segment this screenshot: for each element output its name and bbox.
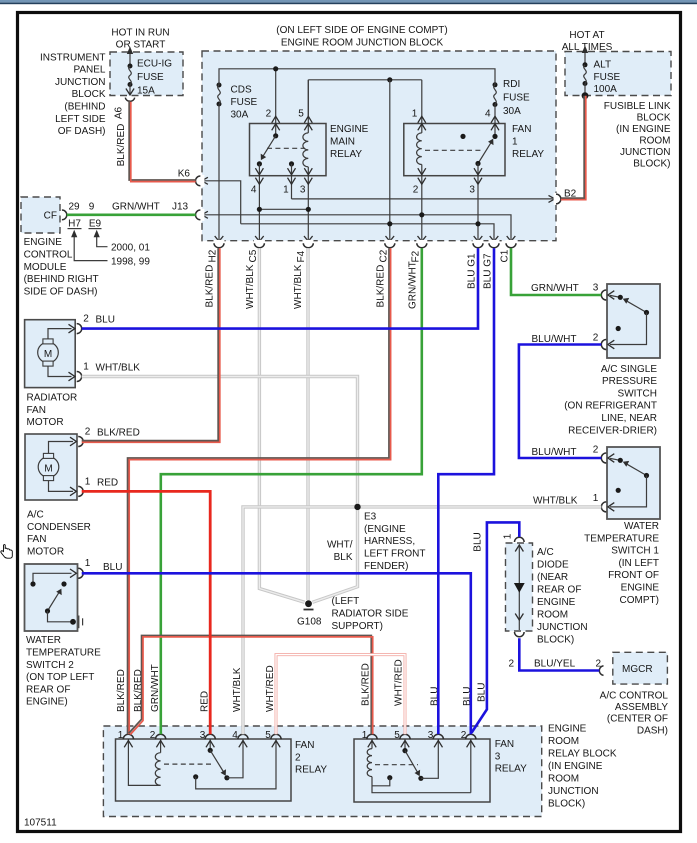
svg-text:RADIATOR: RADIATOR — [27, 393, 78, 404]
svg-text:BLK/RED: BLK/RED — [376, 265, 387, 308]
svg-text:WHT/BLK: WHT/BLK — [245, 264, 256, 309]
svg-text:M: M — [44, 463, 52, 474]
FAN1 contact dot — [475, 161, 480, 166]
wire jumper pins4-3 — [259, 208, 308, 210]
engine room junction block box — [202, 51, 556, 241]
svg-text:RECEIVER-DRIER): RECEIVER-DRIER) — [568, 425, 657, 436]
svg-text:ENGINE: ENGINE — [621, 583, 660, 594]
svg-text:BLU/YEL: BLU/YEL — [534, 659, 576, 670]
svg-text:WATER: WATER — [26, 635, 61, 646]
svg-text:107511: 107511 — [24, 818, 57, 829]
WTS1 dot B — [644, 473, 649, 478]
FAN2 pin 4 — [227, 739, 243, 778]
svg-text:BLOCK): BLOCK) — [548, 799, 585, 810]
svg-text:1: 1 — [85, 476, 91, 487]
svg-text:(BEHIND RIGHT: (BEHIND RIGHT — [24, 274, 99, 285]
wire K6 row — [204, 181, 241, 224]
svg-text:FAN: FAN — [495, 739, 514, 750]
a/c condenser fan motor box — [25, 434, 77, 500]
svg-text:E9: E9 — [89, 219, 102, 230]
svg-text:J13: J13 — [172, 202, 189, 213]
svg-text:4: 4 — [485, 109, 491, 120]
fusible link block box — [565, 52, 671, 96]
svg-text:G108: G108 — [297, 616, 322, 627]
svg-text:COMPT): COMPT) — [620, 595, 659, 606]
a/c diode box — [506, 543, 533, 631]
svg-text:ENGINE): ENGINE) — [26, 697, 68, 708]
svg-text:2: 2 — [83, 314, 89, 325]
svg-text:5: 5 — [265, 730, 271, 741]
svg-text:GRN/WHT: GRN/WHT — [112, 202, 160, 213]
svg-text:HARNESS,: HARNESS, — [364, 536, 415, 547]
svg-text:SIDE OF DASH): SIDE OF DASH) — [24, 287, 98, 298]
diode pin 1 connector — [515, 537, 525, 542]
connector A6 — [125, 98, 134, 102]
svg-text:BLK/RED: BLK/RED — [361, 663, 372, 706]
wire BLK/RED C2 to FAN2 pin1 — [128, 248, 391, 734]
WTS2 internal wire — [33, 573, 72, 581]
wire BLK/RED A6 to K6 — [129, 100, 196, 181]
engine control module CF box — [21, 197, 60, 233]
FAN3 mechanical link — [375, 764, 418, 766]
svg-text:BLU: BLU — [96, 315, 115, 326]
svg-text:JUNCTION: JUNCTION — [537, 622, 588, 633]
svg-text:C5: C5 — [248, 249, 259, 262]
svg-text:29: 29 — [68, 202, 80, 213]
svg-text:FUSIBLE LINK: FUSIBLE LINK — [604, 101, 671, 112]
water temperature switch 2 box — [25, 564, 78, 631]
svg-text:WHT/BLK: WHT/BLK — [96, 362, 141, 373]
svg-text:FRONT OF: FRONT OF — [608, 570, 659, 581]
radiator fan motor symbol — [38, 342, 59, 363]
fan 3 relay box — [354, 739, 490, 802]
svg-text:GRN/WHT: GRN/WHT — [408, 261, 419, 309]
node second bus to C2 — [387, 77, 392, 82]
svg-text:2: 2 — [266, 109, 272, 120]
svg-text:WHT/BLK: WHT/BLK — [533, 495, 578, 506]
ALT fuse 100A — [584, 50, 586, 65]
svg-text:(IN LEFT: (IN LEFT — [618, 558, 659, 569]
fan 1 relay box — [404, 124, 505, 176]
svg-text:1: 1 — [362, 730, 368, 741]
svg-text:(BEHIND: (BEHIND — [64, 102, 105, 113]
svg-text:ENGINE: ENGINE — [548, 724, 587, 735]
svg-text:DIODE: DIODE — [537, 559, 569, 570]
svg-text:WHT/BLK: WHT/BLK — [293, 264, 304, 309]
svg-text:DASH): DASH) — [637, 725, 668, 736]
svg-text:(IN ENGINE: (IN ENGINE — [616, 124, 671, 135]
node row2 G1 — [475, 221, 480, 226]
EMR switch arm — [263, 136, 275, 156]
svg-text:BLOCK): BLOCK) — [633, 159, 670, 170]
wire WHT/BLK E3 to WTS1 pin1 and FAN2 pin4 — [243, 507, 601, 734]
svg-text:ECU-IG: ECU-IG — [137, 59, 172, 70]
svg-text:WHT/: WHT/ — [327, 540, 353, 551]
diode internal — [518, 545, 520, 631]
second bus wire — [308, 79, 422, 81]
svg-text:SWITCH 2: SWITCH 2 — [26, 660, 74, 671]
svg-text:REAR OF: REAR OF — [537, 584, 581, 595]
svg-text:MOTOR: MOTOR — [27, 417, 64, 428]
svg-text:BLOCK: BLOCK — [72, 89, 106, 100]
svg-text:JUNCTION: JUNCTION — [548, 786, 599, 797]
FAN3 left dot — [387, 775, 392, 780]
svg-text:TEMPERATURE: TEMPERATURE — [584, 533, 659, 544]
wire WHT/BLK C5 to G108 — [259, 248, 304, 602]
junction dot at fusible link block bottom — [582, 92, 589, 99]
svg-text:LINE, NEAR: LINE, NEAR — [601, 413, 657, 424]
svg-text:4: 4 — [251, 185, 257, 196]
svg-text:A/C SINGLE: A/C SINGLE — [601, 364, 657, 375]
svg-text:(ENGINE: (ENGINE — [364, 524, 406, 535]
svg-text:BLU G7: BLU G7 — [483, 253, 494, 289]
pressure switch dot A — [618, 295, 623, 300]
condenser motor pin 1 — [70, 487, 76, 496]
svg-text:WHT/RED: WHT/RED — [265, 665, 276, 712]
FAN2 coil pin 2 — [160, 739, 162, 753]
svg-text:RED: RED — [97, 477, 118, 488]
svg-text:RELAY: RELAY — [295, 765, 327, 776]
svg-text:MGCR: MGCR — [622, 664, 653, 675]
wire WHT/RED FAN2 pin5 to FAN3 pin5 — [276, 655, 405, 735]
svg-text:BLOCK): BLOCK) — [537, 634, 574, 645]
EMR mechanical link — [267, 147, 305, 149]
wire BLK/RED B2 to ALT fuse — [561, 96, 586, 200]
svg-text:MOTOR: MOTOR — [27, 547, 64, 558]
svg-text:RELAY: RELAY — [495, 764, 527, 775]
svg-text:(IN ENGINE: (IN ENGINE — [548, 761, 603, 772]
svg-text:CONDENSER: CONDENSER — [27, 522, 91, 533]
WTS1 pin 1 path — [610, 476, 647, 507]
top bus wire — [219, 69, 495, 85]
wire BLU G7 to FAN3 pin3 — [438, 248, 494, 734]
FAN1 floating contact dot — [460, 134, 465, 139]
svg-text:(CENTER OF: (CENTER OF — [607, 714, 668, 725]
svg-text:ROOM: ROOM — [537, 609, 568, 620]
svg-text:A/C CONTROL: A/C CONTROL — [600, 690, 669, 701]
svg-text:ROOM: ROOM — [639, 136, 670, 147]
svg-text:2: 2 — [150, 730, 156, 741]
wire RED condenser fan pin1 to FAN2 pin3 — [82, 491, 211, 734]
svg-text:A6: A6 — [114, 106, 125, 119]
wire C2 shaft — [389, 80, 391, 241]
wire BLK/RED FAN2 pin2 to FAN3 pin1 — [129, 636, 373, 735]
svg-text:ENGINE: ENGINE — [330, 124, 369, 135]
node top bus to EMR pin2 — [273, 66, 278, 71]
wire B2 row — [292, 198, 553, 200]
svg-text:4: 4 — [232, 730, 238, 741]
svg-text:BLK/RED: BLK/RED — [97, 427, 140, 438]
svg-text:K6: K6 — [178, 168, 191, 179]
svg-text:SWITCH: SWITCH — [618, 388, 657, 399]
ground G108 — [305, 600, 312, 607]
svg-text:3: 3 — [300, 185, 306, 196]
svg-text:ENGINE: ENGINE — [24, 237, 63, 248]
connector B2 — [554, 193, 559, 205]
svg-text:3: 3 — [428, 730, 434, 741]
wire WHT/BLK radiator fan pin1 to E3 to G108 — [82, 377, 358, 603]
svg-text:1: 1 — [593, 493, 599, 504]
svg-text:9: 9 — [89, 202, 95, 213]
water temperature switch 1 box — [607, 447, 660, 519]
svg-text:15A: 15A — [137, 86, 155, 97]
a/c single pressure switch box — [607, 284, 660, 358]
svg-text:BLU/WHT: BLU/WHT — [532, 334, 577, 345]
svg-text:BLU G1: BLU G1 — [467, 253, 478, 289]
svg-text:BLK/RED: BLK/RED — [205, 265, 216, 308]
svg-text:FUSE: FUSE — [231, 97, 258, 108]
pressure switch arm — [627, 301, 646, 312]
svg-text:ALT: ALT — [594, 60, 612, 71]
svg-text:BLU: BLU — [103, 562, 122, 573]
svg-text:1: 1 — [83, 361, 89, 372]
svg-text:100A: 100A — [594, 84, 618, 95]
MGCR box — [613, 652, 668, 684]
svg-text:1: 1 — [503, 533, 514, 539]
svg-text:OR START: OR START — [116, 40, 166, 51]
svg-text:WATER: WATER — [624, 521, 659, 532]
svg-text:2: 2 — [85, 426, 91, 437]
svg-text:FAN: FAN — [27, 405, 46, 416]
svg-text:INSTRUMENT: INSTRUMENT — [40, 52, 106, 63]
svg-text:2: 2 — [295, 752, 301, 763]
svg-text:JUNCTION: JUNCTION — [620, 147, 671, 158]
FAN1 switch arm — [478, 143, 491, 164]
svg-text:3: 3 — [469, 185, 475, 196]
svg-text:RADIATOR SIDE: RADIATOR SIDE — [332, 609, 409, 620]
svg-text:BLU: BLU — [473, 532, 484, 551]
WTS2 pin 1 — [70, 569, 76, 578]
svg-text:FAN: FAN — [295, 740, 314, 751]
top window strip — [0, 0, 697, 3]
radiator motor pin 2 — [69, 324, 75, 333]
svg-text:3: 3 — [593, 283, 599, 294]
svg-text:2: 2 — [413, 185, 419, 196]
node J13 FAN1 pin2 — [419, 212, 424, 217]
svg-text:PANEL: PANEL — [73, 65, 105, 76]
svg-text:MAIN: MAIN — [330, 137, 355, 148]
svg-text:5: 5 — [394, 730, 400, 741]
svg-text:OF DASH): OF DASH) — [58, 126, 106, 137]
WTS2 arm — [48, 593, 59, 611]
wire H2 shaft — [218, 104, 220, 241]
svg-text:LEFT FRONT: LEFT FRONT — [364, 549, 425, 560]
wire GRN/WHT C1 to pressure switch pin3 — [511, 248, 601, 295]
FAN2 pin 3 switch — [209, 739, 211, 750]
svg-text:LEFT SIDE: LEFT SIDE — [55, 114, 106, 125]
svg-text:FUSE: FUSE — [503, 93, 530, 104]
WTS1 arm — [627, 464, 646, 475]
WTS1 dot C — [616, 488, 621, 493]
engine room relay block box — [103, 726, 541, 817]
svg-text:A/C: A/C — [537, 547, 554, 558]
radiator fan motor box — [25, 320, 76, 388]
FAN1 mechanical link — [425, 149, 481, 151]
node row2 C2 — [387, 221, 392, 226]
year note arrows — [74, 235, 107, 261]
wire GRN/WHT F2 to FAN2 pin2 — [161, 248, 422, 734]
connector arcs on relay block edge — [123, 734, 476, 739]
pressure switch dot C — [616, 326, 621, 331]
svg-text:WHT/RED: WHT/RED — [394, 659, 405, 706]
svg-text:BLU/WHT: BLU/WHT — [532, 447, 577, 458]
svg-text:BLK/RED: BLK/RED — [116, 669, 127, 712]
svg-text:ROOM: ROOM — [548, 774, 579, 785]
svg-text:3: 3 — [200, 730, 206, 741]
svg-text:5: 5 — [298, 109, 304, 120]
wire BLU/WHT pressure switch pin2 to WTS1 pin2 — [519, 345, 601, 459]
svg-text:(ON REFRIGERANT: (ON REFRIGERANT — [564, 401, 657, 412]
svg-text:PRESSURE: PRESSURE — [602, 376, 657, 387]
RDI fuse 30A — [493, 82, 498, 87]
condenser motor pin 2 — [70, 437, 76, 446]
svg-text:30A: 30A — [231, 110, 249, 121]
connector K6 — [199, 175, 204, 187]
wire BLK/RED H2 to condenser fan pin2 — [82, 248, 220, 442]
svg-text:C2: C2 — [379, 249, 390, 262]
FAN2 pin 5 — [196, 739, 276, 789]
svg-text:BLOCK: BLOCK — [637, 113, 671, 124]
svg-text:SWITCH 1: SWITCH 1 — [611, 546, 659, 557]
EMR contact dot pin4 — [257, 161, 262, 166]
CDS fuse 30A — [217, 83, 222, 88]
svg-text:CF: CF — [44, 210, 57, 221]
wire BLU WTS2 pin1 to FAN3 pin2 — [82, 573, 471, 734]
exit chevrons and connectors H2 C5 F4 C2 F2 G1 G7 C1 — [214, 236, 517, 248]
ECU-IG fuse box — [110, 52, 183, 96]
wire BLU/YEL diode pin2 to MGCR — [519, 638, 599, 670]
svg-text:FUSE: FUSE — [137, 72, 164, 83]
svg-text:RELAY: RELAY — [512, 149, 544, 160]
WTS1 dot A — [618, 458, 623, 463]
svg-text:A/C: A/C — [27, 510, 44, 521]
svg-text:1: 1 — [118, 730, 124, 741]
WTS2 left dot — [30, 581, 35, 586]
pressure switch pin 3 — [601, 290, 606, 300]
FAN2 pin 1 — [128, 739, 160, 785]
svg-text:F4: F4 — [296, 250, 307, 262]
wire row2 to G7 — [241, 224, 494, 241]
engine main relay box — [250, 124, 327, 176]
svg-text:2: 2 — [593, 333, 599, 344]
svg-text:(LEFT: (LEFT — [332, 596, 360, 607]
svg-text:GRN/WHT: GRN/WHT — [150, 664, 161, 712]
svg-text:1: 1 — [283, 185, 289, 196]
svg-text:2: 2 — [593, 445, 599, 456]
FAN3 pin 5 switch — [404, 739, 406, 751]
svg-text:FENDER): FENDER) — [364, 561, 408, 572]
FAN3 pin 2 — [470, 739, 472, 793]
a/c condenser fan motor symbol — [38, 457, 59, 478]
svg-text:H7: H7 — [68, 219, 81, 230]
svg-text:RDI: RDI — [503, 79, 520, 90]
svg-text:FAN: FAN — [27, 534, 46, 545]
node jumper pin3 — [306, 207, 311, 212]
svg-text:GRN/WHT: GRN/WHT — [531, 283, 579, 294]
diode pin 2 connector — [515, 632, 525, 637]
svg-text:1: 1 — [412, 109, 418, 120]
pressure switch dot B — [644, 310, 649, 315]
MGCR connector — [599, 666, 603, 676]
wire BLU diode pin1 to FAN3 pin2 — [472, 522, 520, 732]
EMR contact dot pin1 — [289, 161, 294, 166]
svg-text:1998, 99: 1998, 99 — [111, 257, 150, 268]
svg-text:(ON TOP LEFT: (ON TOP LEFT — [26, 672, 94, 683]
radiator motor pin 1 — [69, 372, 75, 381]
svg-text:(ON LEFT SIDE OF ENGINE COMPT): (ON LEFT SIDE OF ENGINE COMPT) — [276, 25, 448, 36]
E3 node — [354, 504, 360, 510]
svg-text:BLK: BLK — [334, 552, 353, 563]
svg-text:FAN: FAN — [512, 124, 531, 135]
svg-text:REAR OF: REAR OF — [26, 684, 70, 695]
svg-text:2: 2 — [461, 730, 467, 741]
svg-text:E3: E3 — [364, 512, 377, 523]
wire J13 row — [204, 215, 512, 241]
wire BLU G1 to radiator fan pin2 — [82, 248, 478, 328]
svg-text:F2: F2 — [411, 250, 422, 262]
svg-text:ENGINE ROOM JUNCTION BLOCK: ENGINE ROOM JUNCTION BLOCK — [281, 38, 444, 49]
node jumper pin4 — [257, 207, 262, 212]
svg-text:TEMPERATURE: TEMPERATURE — [26, 648, 101, 659]
svg-text:MODULE: MODULE — [24, 262, 67, 273]
mouse cursor — [1, 545, 12, 559]
FAN1 coil — [417, 133, 422, 165]
svg-text:M: M — [44, 349, 52, 360]
wire GRN/WHT CF to J13 — [67, 214, 196, 217]
pressure switch pin 2 path — [610, 313, 647, 345]
svg-text:3: 3 — [495, 751, 501, 762]
svg-text:CONTROL: CONTROL — [24, 250, 73, 261]
svg-text:ROOM: ROOM — [548, 736, 579, 747]
svg-text:JUNCTION: JUNCTION — [55, 77, 106, 88]
WTS2 case contact — [48, 611, 73, 622]
fan 2 relay box — [116, 739, 292, 801]
svg-text:1: 1 — [512, 137, 518, 148]
svg-text:HOT IN RUN: HOT IN RUN — [111, 27, 169, 38]
FAN2 floating contact — [193, 774, 198, 779]
connector CF — [62, 210, 67, 220]
FAN2 mechanical link — [164, 763, 212, 765]
svg-text:SUPPORT): SUPPORT) — [332, 621, 384, 632]
svg-text:ASSEMBLY: ASSEMBLY — [615, 702, 668, 713]
svg-text:2000, 01: 2000, 01 — [111, 243, 150, 254]
FAN3 coil pin 1 — [371, 739, 373, 749]
FAN1 pivot dot — [492, 134, 497, 139]
svg-text:H2: H2 — [208, 249, 219, 262]
svg-text:RELAY BLOCK: RELAY BLOCK — [548, 749, 617, 760]
svg-text:2: 2 — [508, 659, 514, 670]
svg-text:30A: 30A — [503, 106, 521, 117]
FAN3 pin 3 — [421, 739, 438, 778]
EMR coil — [303, 133, 308, 167]
svg-text:BLK/RED: BLK/RED — [116, 124, 127, 167]
svg-text:CDS: CDS — [231, 85, 252, 96]
svg-text:FUSE: FUSE — [594, 72, 621, 83]
wire WHT/BLK F4 to G108 — [306, 248, 309, 600]
ECU-IG fuse 15A — [129, 51, 131, 66]
svg-text:C1: C1 — [500, 249, 511, 262]
svg-text:RELAY: RELAY — [330, 149, 362, 160]
svg-text:1: 1 — [85, 558, 91, 569]
WTS1 pin 2 — [601, 453, 606, 463]
svg-text:ENGINE: ENGINE — [537, 597, 576, 608]
EMR switch common dot — [273, 133, 278, 138]
svg-text:HOT AT: HOT AT — [569, 30, 604, 41]
connector J13 — [199, 209, 204, 221]
svg-text:(NEAR: (NEAR — [537, 572, 568, 583]
WTS2 pivot dot — [45, 608, 50, 613]
WTS2 right dot — [61, 581, 66, 586]
